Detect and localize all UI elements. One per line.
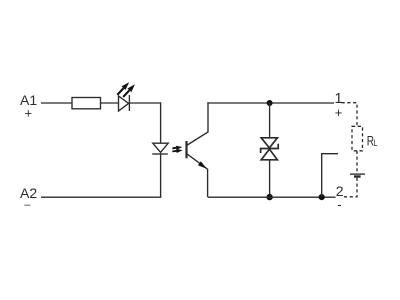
LED emission arrows	[117, 82, 136, 97]
svg-text:+: +	[25, 105, 33, 120]
LED indicator diode	[119, 95, 130, 111]
dashed external wire from terminal 1	[342, 103, 358, 127]
optocoupler light arrows	[172, 146, 182, 153]
phototransistor base	[185, 141, 187, 158]
wire A2 (bottom input)	[41, 196, 161, 198]
svg-text:-: -	[337, 197, 341, 212]
wire A1 to resistor	[41, 102, 72, 104]
phototransistor collector	[187, 102, 208, 145]
phototransistor emitter arrow	[198, 161, 207, 168]
wire resistor to LED	[101, 102, 119, 104]
phototransistor emitter	[186, 153, 207, 197]
output top wire	[207, 102, 334, 104]
wire LED to corner	[129, 102, 161, 104]
optocoupler LED	[152, 143, 168, 154]
dashed wire RL to battery	[356, 151, 358, 172]
load resistor RL (dashed)	[352, 126, 363, 151]
junction node stub	[319, 194, 325, 200]
resistor R (input series)	[72, 98, 101, 109]
junction node bottom (TVS)	[266, 194, 272, 200]
svg-text:L: L	[374, 138, 378, 148]
svg-text:+: +	[335, 105, 343, 120]
TVS suppressor diode (bidirectional)	[261, 138, 279, 160]
junction node top	[267, 100, 273, 106]
battery long plate	[350, 173, 365, 175]
stub branch to open end	[322, 154, 338, 197]
output bottom wire	[208, 196, 336, 198]
wire corner down to opto LED	[160, 102, 162, 143]
dashed wire battery to terminal 2	[344, 178, 358, 197]
battery short plate	[354, 175, 361, 177]
wire opto LED to bottom	[160, 154, 162, 197]
TVS branch lower wire	[269, 160, 271, 197]
svg-text:–: –	[24, 199, 31, 211]
TVS branch upper wire	[269, 103, 271, 138]
